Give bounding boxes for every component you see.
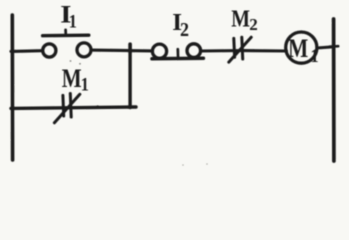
wire coil to rail (317, 47, 334, 48)
label M1 (62, 65, 89, 95)
wire M2 to coil (244, 49, 287, 53)
svg-text:1: 1 (69, 10, 77, 32)
node junction of latch branch (128, 44, 132, 52)
speckle under I1 bar (70, 60, 72, 62)
svg-text:M: M (288, 35, 308, 63)
svg-text:M: M (231, 5, 250, 32)
pushbutton contact I1 (43, 30, 91, 57)
wire vertical branch (128, 50, 131, 108)
label M2 (231, 5, 258, 35)
speckle bottom center (182, 164, 184, 166)
wire branch horizontal (11, 107, 136, 108)
label M1 coil (288, 35, 318, 66)
svg-text:M: M (62, 65, 82, 94)
pushbutton contact I2 (152, 44, 203, 59)
NC contact M2 (229, 37, 251, 62)
svg-text:2: 2 (180, 19, 189, 41)
wire I1 to I2 (91, 49, 152, 53)
right rail (332, 19, 336, 161)
label I1 (60, 0, 77, 32)
wire I2 to M2 (201, 49, 246, 53)
NC contact M1 (54, 94, 79, 123)
coil M1 (286, 32, 317, 63)
node dot on branch wire (96, 105, 99, 108)
svg-text:2: 2 (249, 15, 257, 34)
node dot left rail branch tap (11, 106, 15, 110)
node dot left rail top tap (11, 49, 15, 53)
label I2 (172, 9, 189, 41)
left rail (11, 15, 15, 160)
node tap on right rail (330, 45, 339, 48)
svg-text:1: 1 (81, 73, 89, 95)
wire rail to I1 (11, 49, 43, 53)
speckle near M1 label (79, 63, 81, 65)
speckle bottom center 2 (206, 163, 208, 165)
